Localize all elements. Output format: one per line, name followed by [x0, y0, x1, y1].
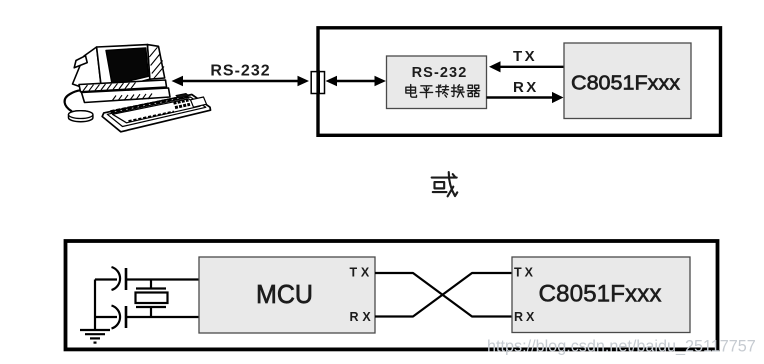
glyph 换 [451, 85, 464, 97]
capacitor C2 straight plate [125, 306, 128, 328]
right end key block [191, 97, 207, 107]
svg-text:RS-232: RS-232 [412, 65, 468, 81]
numpad keys [174, 100, 191, 108]
wire: PC to connector, double-headed arrow [172, 76, 310, 86]
keyboard top face outline [107, 97, 206, 127]
numpad dark corner key [176, 94, 189, 99]
monitor front bezel [97, 45, 150, 92]
vent lines under screen [109, 80, 149, 91]
svg-text:RS-232: RS-232 [210, 62, 270, 79]
svg-text:MCU: MCU [256, 279, 313, 309]
capacitor C1 curved plate [112, 267, 121, 290]
svg-text:RX: RX [513, 79, 539, 96]
svg-text:TX: TX [513, 48, 537, 65]
svg-text:C8051Fxxx: C8051Fxxx [539, 281, 662, 308]
wire RX with arrow into C8051 [487, 92, 564, 103]
C8051Fxxx box (top) [564, 43, 691, 119]
base slab 1 [79, 80, 167, 92]
keyboard key field [113, 99, 201, 123]
crystal circuit [95, 267, 199, 329]
svg-text:TX: TX [514, 266, 536, 280]
connector on box edge [311, 72, 324, 94]
glyph 转 [436, 85, 449, 97]
keyboard top key row [111, 96, 189, 112]
MCU box [199, 257, 375, 333]
label 电平转换器 (level converter) [406, 85, 480, 98]
top cap wire right to MCU [126, 278, 199, 280]
wire RX-to-TX cross [375, 273, 512, 317]
capacitor C1 straight plate [125, 268, 128, 290]
glyph 平 [420, 86, 432, 98]
crystal Y1 top plate [136, 287, 166, 289]
bottom cap wire left [95, 316, 117, 318]
bottom cap wire right to MCU [126, 316, 199, 318]
base slab 2 hatches [112, 94, 152, 102]
crystal Y1 bottom plate [136, 306, 166, 308]
wire TX-to-RX cross [375, 273, 512, 317]
monitor left body [73, 47, 102, 92]
crystal Y1 body [136, 293, 168, 304]
left rail wire [94, 280, 96, 330]
label 或 (or) [432, 172, 458, 196]
C8051Fxxx box (bottom) [512, 257, 690, 333]
top cap wire left [95, 278, 117, 280]
svg-text:TX: TX [350, 266, 374, 280]
crossover wires [375, 273, 512, 317]
glyph 器 [467, 85, 479, 96]
keyboard outer [102, 95, 210, 132]
crystal Y1 bottom stub [150, 307, 152, 317]
svg-text:https://blog.csdn.net/baidu_25: https://blog.csdn.net/baidu_25117757 [487, 338, 756, 356]
monitor top-left flap [74, 56, 87, 68]
crystal Y1 top stub [150, 280, 152, 289]
outer box (bottom system) [66, 241, 718, 349]
mouse cable [65, 90, 81, 111]
keyboard lower key row [129, 112, 175, 122]
monitor right side strip [147, 45, 164, 80]
wire: connector to RS-232 converter, double-headed arrow [326, 76, 387, 86]
box border through connector [316, 71, 320, 95]
base slab 2 [82, 88, 171, 103]
mouse body [69, 111, 93, 122]
RS-232 level converter box [387, 56, 487, 109]
glyph 电 [406, 85, 417, 98]
svg-text:RX: RX [350, 310, 375, 324]
black screen [106, 48, 148, 85]
strip hatch lines [149, 47, 164, 79]
wire TX with arrow into converter [489, 61, 564, 72]
computer PC icon [65, 45, 211, 132]
capacitor C2 curved plate [112, 306, 121, 329]
base slab 1 hatches [83, 82, 136, 91]
svg-text:C8051Fxxx: C8051Fxxx [571, 73, 680, 95]
outer box (top system) [318, 28, 721, 136]
ground [80, 330, 110, 343]
svg-text:RX: RX [514, 310, 537, 324]
